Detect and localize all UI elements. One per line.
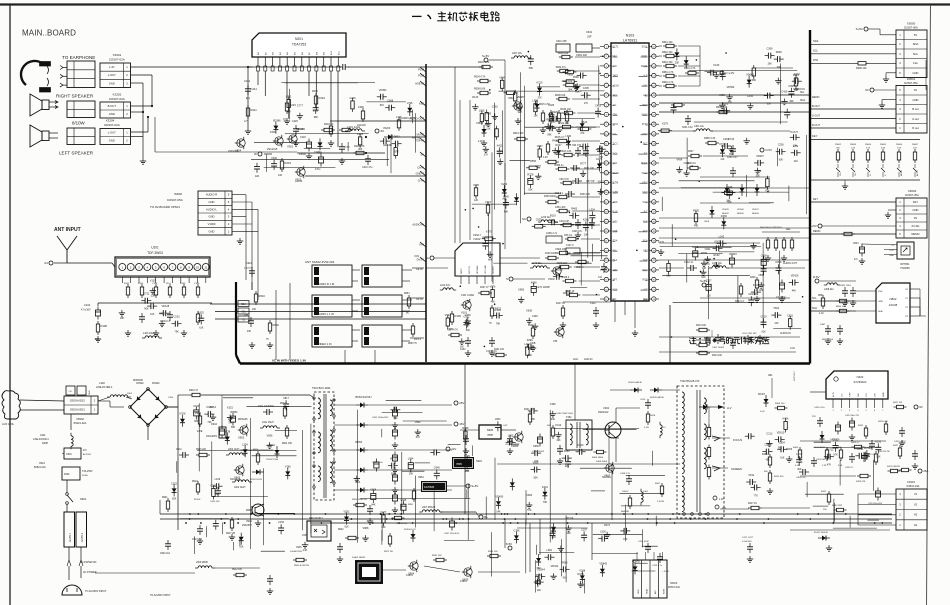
svg-text:PGM: PGM — [418, 68, 424, 72]
svg-text:V901: V901 — [246, 520, 252, 523]
svg-text:61K: 61K — [345, 526, 350, 529]
svg-text:I/C IN WITH VIDEO 1 IN: I/C IN WITH VIDEO 1 IN — [272, 359, 306, 363]
svg-text:L925: L925 — [198, 311, 204, 314]
svg-text:91/3W: 91/3W — [194, 499, 201, 501]
svg-text:L434: L434 — [747, 95, 753, 98]
svg-text:5A: 5A — [425, 256, 429, 260]
svg-text:0A1106: 0A1106 — [737, 212, 745, 215]
svg-text:R327: R327 — [556, 144, 563, 147]
svg-text:C621 0.01: C621 0.01 — [682, 127, 693, 129]
svg-text:X3204: X3204 — [106, 119, 115, 123]
svg-text:12K: 12K — [707, 294, 712, 297]
svg-text:AR IN: AR IN — [832, 392, 835, 397]
svg-text:VD615: VD615 — [777, 431, 785, 434]
svg-text:C156: C156 — [152, 283, 158, 285]
svg-text:V454: V454 — [676, 159, 682, 162]
svg-text:K454: K454 — [783, 417, 789, 420]
svg-text:C29N 2-7u: C29N 2-7u — [546, 233, 558, 235]
svg-text:60K: 60K — [779, 159, 784, 162]
svg-text:GND: GND — [889, 255, 894, 257]
svg-text:NNINV: NNINV — [883, 391, 885, 397]
svg-text:41K: 41K — [216, 493, 221, 496]
svg-text:1000u: 1000u — [299, 153, 306, 156]
svg-text:V2: V2 — [914, 502, 918, 506]
svg-text:K702: K702 — [719, 143, 725, 146]
svg-text:K958: K958 — [776, 261, 782, 264]
svg-text:35K: 35K — [391, 473, 396, 476]
svg-text:L526: L526 — [600, 531, 606, 534]
svg-text:V988: V988 — [363, 527, 369, 530]
svg-text:K325: K325 — [548, 104, 554, 107]
svg-text:R427 1M: R427 1M — [893, 402, 902, 404]
svg-text:LA76931: LA76931 — [623, 39, 637, 43]
svg-text:41K: 41K — [303, 549, 308, 552]
svg-text:R272: R272 — [604, 524, 611, 527]
svg-text:39K: 39K — [393, 417, 398, 420]
svg-text:V402: V402 — [603, 406, 610, 410]
svg-text:R917 2R: R917 2R — [226, 533, 235, 535]
svg-text:POM: POM — [418, 74, 424, 78]
svg-text:C1815: C1815 — [460, 581, 467, 583]
svg-text:1600V: 1600V — [622, 491, 629, 493]
svg-text:R565: R565 — [530, 160, 537, 163]
svg-text:K724: K724 — [753, 284, 759, 287]
svg-text:V836: V836 — [267, 434, 273, 437]
svg-text:C604: C604 — [586, 31, 593, 34]
svg-text:SDA: SDA — [812, 307, 817, 310]
svg-text:C622: C622 — [833, 439, 840, 442]
svg-text:C802 C801: C802 C801 — [840, 285, 852, 287]
svg-text:CH-: CH- — [855, 172, 857, 176]
svg-text:GND-Y: GND-Y — [416, 172, 425, 176]
svg-text:61K: 61K — [780, 456, 785, 459]
svg-text:84K: 84K — [465, 470, 470, 473]
svg-text:L-IN: L-IN — [109, 65, 114, 69]
svg-text:SDA: SDA — [878, 310, 883, 313]
svg-text:69K: 69K — [231, 426, 236, 429]
svg-text:2.0uF/50V: 2.0uF/50V — [742, 541, 752, 543]
svg-text:R622 100: R622 100 — [558, 122, 569, 125]
svg-text:S+5V: S+5V — [471, 484, 478, 488]
svg-text:V495: V495 — [473, 184, 479, 187]
svg-text:VD951 RGP15J: VD951 RGP15J — [355, 397, 371, 399]
svg-text:R942: R942 — [338, 529, 344, 531]
svg-text:C910: C910 — [211, 423, 218, 426]
svg-text:R004 4.7K: R004 4.7K — [474, 76, 486, 79]
svg-text:AGE-IN: AGE-IN — [415, 82, 424, 86]
svg-text:L907 936U/8: L907 936U/8 — [422, 507, 436, 509]
svg-text:GND: GND — [89, 390, 91, 395]
svg-text:C246 47u: C246 47u — [572, 231, 583, 233]
svg-text:V760: V760 — [285, 465, 291, 468]
svg-text:R424 0.68/2W: R424 0.68/2W — [887, 466, 900, 468]
svg-text:S+5V: S+5V — [856, 27, 863, 31]
svg-text:K411: K411 — [497, 144, 503, 147]
svg-text:R405 220 2W: R405 220 2W — [878, 451, 890, 453]
svg-text:HEAT: HEAT — [646, 588, 649, 594]
svg-text:37K: 37K — [538, 97, 543, 100]
svg-text:28K: 28K — [567, 532, 572, 535]
svg-text:AC POWER: AC POWER — [83, 571, 97, 574]
svg-text:U101: U101 — [151, 246, 159, 250]
svg-text:84K: 84K — [371, 504, 376, 507]
svg-text:R624 100: R624 100 — [513, 132, 524, 135]
svg-text:VD722: VD722 — [826, 449, 834, 452]
svg-text:R425: R425 — [858, 425, 864, 427]
svg-text:AV-TV: AV-TV — [916, 170, 919, 176]
svg-text:77K: 77K — [754, 494, 759, 497]
svg-text:25V: 25V — [812, 416, 816, 418]
svg-text:3.9K: 3.9K — [838, 465, 843, 467]
svg-text:TDA7253: TDA7253 — [292, 43, 306, 47]
svg-text:R603 100: R603 100 — [558, 52, 569, 55]
svg-text:R152: R152 — [714, 254, 721, 257]
svg-text:C342 1u: C342 1u — [684, 261, 694, 264]
svg-text:K2S17: K2S17 — [473, 233, 481, 237]
svg-text:47K: 47K — [706, 263, 711, 266]
svg-text:VD607: VD607 — [752, 209, 759, 211]
svg-text:ABL: ABL — [768, 374, 773, 377]
svg-text:R964 10K: R964 10K — [488, 551, 498, 553]
svg-text:AGC: AGC — [573, 358, 578, 361]
svg-text:VD842: VD842 — [599, 563, 607, 566]
svg-text:C93 0.1: C93 0.1 — [555, 192, 564, 195]
svg-text:MUTE: MUTE — [417, 133, 425, 137]
svg-text:VD551: VD551 — [230, 411, 238, 414]
svg-text:R-OUT: R-OUT — [812, 124, 820, 127]
svg-text:43P: 43P — [247, 331, 252, 333]
svg-text:C804: C804 — [853, 243, 859, 245]
svg-text:R142: R142 — [138, 283, 144, 285]
svg-text:N802: N802 — [890, 297, 897, 301]
svg-text:GND: GND — [638, 589, 640, 594]
svg-text:12V: 12V — [451, 447, 456, 451]
svg-text:R404 4.7: R404 4.7 — [851, 442, 860, 444]
svg-text:V482: V482 — [550, 403, 556, 406]
svg-text:R908 100: R908 100 — [856, 67, 867, 70]
svg-text:AFC: AFC — [654, 589, 657, 594]
svg-text:L-OUT: L-OUT — [108, 131, 116, 135]
svg-text:R345 R346: R345 R346 — [544, 196, 556, 198]
svg-text:H1: H1 — [914, 523, 918, 527]
svg-text:K896: K896 — [527, 339, 533, 342]
svg-text:Cb-IN: Cb-IN — [416, 298, 423, 301]
svg-text:K433: K433 — [794, 73, 800, 76]
svg-text:K636: K636 — [526, 310, 532, 313]
svg-text:C648: C648 — [726, 186, 733, 189]
svg-text:AUX COIL: AUX COIL — [2, 422, 15, 426]
svg-text:C834: C834 — [244, 315, 250, 317]
svg-text:R125 100B: R125 100B — [545, 253, 557, 255]
svg-text:98K: 98K — [314, 116, 319, 119]
svg-text:55K: 55K — [528, 354, 533, 357]
svg-text:27K: 27K — [484, 153, 489, 156]
svg-text:L103 10uH: L103 10uH — [143, 332, 155, 335]
svg-text:FUSE: FUSE — [82, 475, 88, 477]
svg-text:VSS: VSS — [878, 291, 883, 293]
svg-text:R529: R529 — [776, 51, 783, 54]
svg-text:KE1: KE1 — [419, 102, 424, 106]
svg-text:14K: 14K — [513, 104, 518, 107]
svg-text:H-OUT: H-OUT — [790, 131, 798, 134]
svg-text:R913: R913 — [195, 412, 201, 415]
svg-text:REMO: REMO — [813, 230, 821, 233]
svg-text:D2S07-02A: D2S07-02A — [109, 58, 125, 62]
svg-text:11K: 11K — [460, 345, 464, 348]
svg-text:SCL: SCL — [813, 49, 819, 53]
svg-text:R out: R out — [912, 126, 919, 130]
svg-text:R912 100: R912 100 — [232, 569, 243, 571]
svg-text:SDA: SDA — [913, 42, 919, 46]
svg-text:1.0K: 1.0K — [543, 157, 548, 159]
svg-text:19K: 19K — [120, 317, 125, 320]
svg-text:R0D5108: R0D5108 — [133, 380, 143, 382]
svg-text:L283: L283 — [508, 434, 514, 437]
svg-text:V738: V738 — [224, 431, 230, 434]
svg-text:R430: R430 — [552, 140, 559, 143]
svg-text:L102 S41: L102 S41 — [440, 285, 451, 287]
svg-text:R801: R801 — [818, 295, 824, 297]
svg-text:46K: 46K — [556, 439, 561, 442]
svg-text:K364: K364 — [210, 406, 216, 409]
svg-text:90K: 90K — [144, 308, 149, 311]
svg-text:100u/400V: 100u/400V — [206, 436, 218, 438]
svg-text:+ 250V: + 250V — [662, 571, 670, 573]
svg-text:30K: 30K — [789, 100, 794, 103]
svg-text:L904 10uH: L904 10uH — [234, 487, 246, 489]
svg-text:C414 470P: C414 470P — [638, 541, 649, 543]
svg-text:K314: K314 — [555, 424, 561, 427]
svg-text:V3601: V3601 — [476, 122, 484, 125]
svg-text:44K: 44K — [792, 290, 797, 293]
svg-text:GND: GND — [109, 139, 115, 143]
svg-text:L007 22u: L007 22u — [512, 52, 523, 55]
svg-text:R406 0R60: R406 0R60 — [592, 457, 604, 459]
svg-text:TO AC250V INPUT: TO AC250V INPUT — [150, 594, 171, 597]
svg-text:K462: K462 — [159, 313, 165, 316]
svg-text:30K: 30K — [797, 468, 802, 471]
svg-text:X3902: X3902 — [76, 417, 84, 421]
svg-text:R972 2/K: R972 2/K — [384, 551, 394, 553]
svg-text:R911 15K: R911 15K — [282, 443, 293, 445]
svg-text:Cr-IN: Cr-IN — [418, 179, 424, 183]
svg-text:R3607: R3607 — [912, 144, 919, 146]
svg-text:C438: C438 — [761, 254, 768, 257]
svg-text:O-5V: O-5V — [765, 148, 772, 152]
svg-text:C236: C236 — [778, 144, 785, 147]
svg-text:L116: L116 — [524, 343, 530, 346]
svg-text:CB? OP: CB? OP — [586, 181, 595, 183]
svg-text:R117 16: R117 16 — [565, 290, 575, 293]
svg-text:7805: 7805 — [487, 433, 493, 437]
svg-text:LEFT SPEAKER: LEFT SPEAKER — [59, 151, 94, 156]
svg-text:K361: K361 — [583, 218, 589, 221]
svg-text:TOP-IN: TOP-IN — [415, 139, 424, 143]
svg-text:S+5V: S+5V — [482, 54, 489, 58]
svg-text:T901 BCK-3901: T901 BCK-3901 — [312, 386, 331, 390]
svg-text:26K: 26K — [768, 63, 773, 66]
svg-text:R143: R143 — [180, 283, 186, 285]
svg-text:4.1K: 4.1K — [819, 313, 824, 315]
svg-text:6.1N: 6.1N — [644, 427, 649, 429]
svg-text:V283: V283 — [526, 494, 532, 497]
svg-text:VD465 0A148: VD465 0A148 — [628, 381, 642, 384]
svg-text:VD605: VD605 — [722, 209, 729, 211]
svg-text:GND: GND — [209, 215, 215, 219]
svg-text:14K: 14K — [580, 584, 585, 587]
svg-text:2SD1615: 2SD1615 — [228, 150, 239, 153]
svg-text:B-OUT: B-OUT — [108, 104, 117, 108]
svg-text:R106: R106 — [455, 314, 462, 318]
svg-text:C170 1000P: C170 1000P — [536, 286, 550, 289]
svg-text:R117 16: R117 16 — [556, 302, 566, 305]
svg-text:O 1-0V: O 1-0V — [725, 71, 734, 75]
svg-text:L796: L796 — [407, 102, 413, 105]
svg-text:AUDIO-R: AUDIO-R — [206, 193, 217, 197]
svg-text:T402 BSC25-070: T402 BSC25-070 — [680, 380, 700, 383]
svg-text:25A: 25A — [923, 469, 928, 473]
svg-text:C154: C154 — [278, 521, 285, 524]
svg-text:C306: C306 — [767, 48, 774, 51]
svg-text:VD319: VD319 — [566, 517, 574, 520]
svg-text:R654: R654 — [404, 293, 410, 295]
svg-text:56K: 56K — [727, 201, 732, 204]
svg-text:35K: 35K — [599, 156, 604, 159]
svg-text:R026 4: R026 4 — [576, 267, 584, 269]
svg-text:2.5/1W: 2.5/1W — [657, 501, 665, 503]
svg-text:C428 0.1: C428 0.1 — [845, 467, 854, 469]
svg-text:GND: GND — [209, 200, 215, 204]
svg-text:0V: 0V — [914, 216, 917, 220]
svg-text:93K: 93K — [551, 418, 556, 421]
svg-text:D2S07-04A: D2S07-04A — [668, 586, 680, 589]
svg-text:2SK2677: 2SK2677 — [242, 524, 253, 527]
svg-text:R418: R418 — [650, 415, 656, 417]
svg-text:92K: 92K — [518, 111, 523, 114]
svg-text:T461: T461 — [566, 416, 572, 419]
svg-text:L903 MZ08: L903 MZ08 — [196, 562, 208, 564]
svg-text:R385 3.3K: R385 3.3K — [704, 137, 716, 140]
svg-text:98K: 98K — [194, 420, 199, 423]
svg-text:R307: R307 — [688, 151, 694, 153]
svg-text:R219: R219 — [285, 161, 292, 165]
svg-text:16V: 16V — [459, 422, 464, 426]
svg-text:41K: 41K — [774, 322, 779, 325]
svg-text:C425 180u 25V: C425 180u 25V — [845, 415, 860, 417]
svg-text:C952 1000u/35V: C952 1000u/35V — [372, 417, 389, 419]
svg-text:17K: 17K — [584, 102, 589, 105]
svg-text:R3605: R3605 — [880, 144, 887, 146]
svg-text:C102: C102 — [460, 349, 466, 351]
svg-text:V344: V344 — [499, 76, 505, 79]
svg-text:V817: V817 — [283, 397, 289, 400]
svg-text:GND: GND — [878, 301, 883, 303]
svg-text:LINE-FILTER-4: LINE-FILTER-4 — [33, 439, 49, 441]
svg-text:R407: R407 — [655, 483, 661, 485]
svg-text:C296: C296 — [358, 106, 364, 109]
svg-text:K940: K940 — [578, 444, 584, 447]
svg-text:D0S07-02A: D0S07-02A — [104, 123, 120, 127]
svg-text:SDA: SDA — [813, 39, 819, 43]
svg-text:D3631-04A: D3631-04A — [907, 485, 920, 488]
svg-text:Ca-IN: Ca-IN — [416, 268, 423, 271]
svg-text:V495: V495 — [485, 112, 491, 115]
svg-text:0151: 0151 — [166, 283, 172, 285]
svg-text:58K: 58K — [568, 89, 573, 92]
svg-text:IS600: IS600 — [174, 192, 182, 196]
svg-text:C415 4.7u: C415 4.7u — [652, 565, 663, 567]
svg-text:C209: C209 — [350, 97, 357, 100]
svg-text:VD341: VD341 — [551, 565, 559, 568]
svg-text:0822 47u: 0822 47u — [556, 66, 567, 69]
svg-text:VD354: VD354 — [379, 89, 387, 92]
svg-text:KD901: KD901 — [152, 382, 160, 385]
svg-text:C252: C252 — [171, 482, 178, 485]
svg-text:L302: L302 — [99, 381, 105, 385]
svg-text:L242: L242 — [719, 235, 725, 238]
svg-text:TO AV-BOARD XP601: TO AV-BOARD XP601 — [150, 205, 180, 209]
svg-text:L916: L916 — [479, 110, 485, 113]
svg-text:98K: 98K — [531, 418, 536, 421]
svg-text:R204 1K: R204 1K — [324, 123, 334, 126]
svg-text:PUMP: PUMP — [850, 391, 852, 397]
svg-text:87K: 87K — [834, 454, 839, 457]
svg-text:K279: K279 — [662, 123, 668, 126]
svg-text:L172: L172 — [796, 453, 802, 456]
svg-text:C415: C415 — [781, 91, 788, 94]
svg-text:C305: C305 — [583, 87, 590, 90]
svg-text:GND: GND — [913, 71, 919, 75]
svg-text:L782: L782 — [286, 96, 292, 99]
svg-text:4.7: 4.7 — [244, 119, 248, 123]
svg-text:OUT: OUT — [875, 393, 877, 397]
svg-text:K868: K868 — [370, 489, 376, 492]
svg-text:DV3-1: DV3-1 — [414, 338, 422, 341]
svg-text:X6403: X6403 — [670, 582, 678, 585]
svg-text:V344: V344 — [748, 474, 754, 477]
svg-text:C911: C911 — [684, 162, 690, 165]
svg-text:VD978: VD978 — [632, 560, 640, 563]
svg-text:ANT INPUT: ANT INPUT — [54, 227, 81, 233]
svg-text:P/W: P/W — [813, 58, 818, 62]
svg-text:C70: C70 — [345, 145, 350, 149]
svg-text:TO AC250V INPUT: TO AC250V INPUT — [85, 590, 107, 593]
svg-text:R483: R483 — [571, 208, 578, 211]
svg-text:C233: C233 — [174, 316, 181, 319]
svg-text:R951: R951 — [408, 504, 414, 506]
svg-text:8KB21-02A: 8KB21-02A — [34, 466, 46, 469]
svg-text:KEY: KEY — [813, 198, 818, 201]
svg-text:R143: R143 — [472, 96, 479, 99]
svg-text:L782: L782 — [793, 145, 799, 148]
svg-text:89K: 89K — [547, 133, 552, 136]
svg-text:62K: 62K — [701, 276, 706, 279]
svg-text:R234: R234 — [312, 90, 318, 93]
svg-text:R630 100: R630 100 — [560, 108, 571, 111]
svg-text:K708: K708 — [180, 413, 186, 416]
svg-text:C241: C241 — [251, 87, 258, 91]
svg-text:C104: C104 — [84, 303, 91, 307]
svg-text:K663 100: K663 100 — [556, 248, 567, 251]
svg-text:V604: V604 — [704, 221, 710, 223]
svg-text:C106: C106 — [194, 283, 200, 285]
svg-text:C330 0.47: C330 0.47 — [727, 157, 738, 159]
svg-text:R288: R288 — [462, 427, 469, 430]
svg-text:9V: 9V — [865, 88, 869, 92]
svg-text:10: 10 — [196, 265, 200, 269]
svg-text:C1815: C1815 — [406, 575, 413, 577]
svg-text:R916 47: R916 47 — [189, 389, 199, 392]
